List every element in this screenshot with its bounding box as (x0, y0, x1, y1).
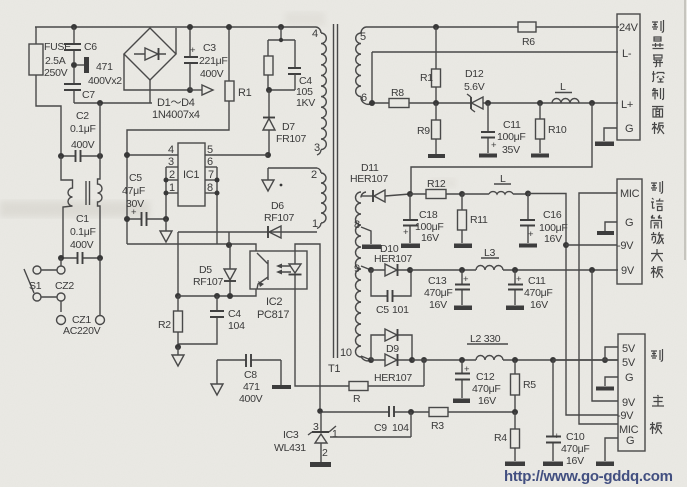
opto-coupler IC2 PC817 (250, 251, 307, 321)
transformer T1 aux winding pin2-pin1 (311, 168, 326, 230)
svg-text:HER107: HER107 (350, 173, 388, 185)
node R2 bottom (175, 344, 181, 350)
svg-text:RF107: RF107 (264, 212, 294, 224)
wire snubber top split (268, 27, 295, 67)
node 主 (main board label char 2) (652, 395, 664, 406)
wire 5V bracket to first pin (553, 347, 618, 360)
svg-text:1: 1 (332, 428, 338, 440)
svg-text:R2: R2 (158, 319, 171, 331)
value label D1~D4 1N4007x4 (152, 97, 200, 121)
node C16 top (525, 191, 531, 197)
node snubber top (278, 24, 284, 30)
svg-text:5: 5 (207, 144, 213, 156)
svg-text:+: + (464, 364, 470, 375)
svg-text:221μF: 221μF (199, 55, 227, 67)
pin 7 of IC1 (205, 169, 217, 181)
pin 3 of IC1 (166, 156, 178, 168)
svg-text:C1: C1 (76, 213, 89, 225)
svg-text:C11: C11 (528, 275, 546, 287)
svg-text:R5: R5 (523, 379, 536, 391)
capacitor C5 47uF 30V (122, 172, 166, 226)
ground bar below C10 (543, 462, 563, 467)
pin 5 of IC1 (205, 144, 268, 156)
wire fuse bottom to CM choke left (36, 75, 61, 156)
resistor R2 (158, 296, 183, 347)
transformer T1 core (328, 24, 340, 375)
node R5 top (512, 357, 518, 363)
svg-text:R10: R10 (548, 124, 567, 136)
svg-text:471: 471 (96, 61, 113, 73)
resistor R9 (417, 103, 441, 154)
connector main board (617, 334, 645, 451)
node snubber bottom / D7 cathode (266, 87, 272, 93)
node C6/C7 midpoint (71, 62, 77, 68)
transformer T1 secondary bottom winding pins 8,9,10 (340, 192, 371, 361)
svg-text:HER107: HER107 (374, 253, 412, 265)
ground hot-gnd arrow C8 left (211, 360, 223, 395)
wire IC1 left pins bus (165, 167, 167, 219)
svg-text:R11: R11 (470, 214, 488, 226)
svg-text:2.5A: 2.5A (45, 55, 66, 67)
svg-text:G: G (625, 123, 633, 135)
ground bar below R4 (505, 462, 525, 467)
svg-text:CZ2: CZ2 (55, 280, 74, 292)
node R12/R11 (459, 191, 465, 197)
node L+ feedback tap (589, 100, 595, 106)
svg-text:400V: 400V (200, 68, 224, 80)
svg-text:R4: R4 (494, 432, 507, 444)
inductor L2 330 (467, 333, 508, 360)
node pin2 (164, 178, 169, 183)
connector CZ2 (41, 258, 74, 312)
svg-text:IC1: IC1 (183, 169, 199, 181)
node C5 left (124, 216, 130, 222)
pin 1 of IC1 (166, 182, 178, 194)
capacitor C10 470uF 16V (546, 360, 589, 467)
bridge rectifier D1~D4 1N4007x4 (124, 28, 176, 103)
svg-text:2: 2 (311, 169, 317, 181)
ground bar below C11-35V (479, 154, 497, 158)
capacitor C6 (64, 27, 97, 62)
svg-text:FUSE: FUSE (44, 41, 71, 53)
node D7 anode on pin5 wire (265, 152, 271, 158)
node 屏 (display label char 3) (653, 55, 663, 67)
capacitor C3 221uF 400V (184, 27, 227, 90)
svg-text:C9: C9 (374, 422, 387, 434)
svg-text:16V: 16V (530, 299, 548, 311)
node 话 (mic amp label char 2) (651, 198, 664, 211)
svg-text:G: G (625, 372, 633, 384)
node R3/R4/R5 junction (512, 409, 518, 415)
resistor R11 (458, 194, 489, 243)
node R1 top (226, 24, 232, 30)
transistor IC3 WL431 shunt regulator (274, 412, 338, 462)
resistor R1 (primary startup) (127, 27, 252, 155)
node C1 right (97, 255, 103, 261)
svg-text:6: 6 (207, 156, 213, 168)
svg-text:C4: C4 (228, 308, 241, 320)
inductor L3 (476, 247, 503, 270)
ground bar below R9 (428, 154, 445, 158)
svg-text:-9V: -9V (617, 240, 634, 252)
node pin8 (215, 191, 220, 196)
svg-text:MIC: MIC (620, 188, 640, 200)
svg-text:C5: C5 (376, 304, 389, 316)
node C9/R3 REF junction (408, 409, 414, 415)
svg-text:S1: S1 (29, 280, 42, 292)
wire snubber bottom join (268, 75, 295, 90)
svg-text:D6: D6 (271, 200, 284, 212)
svg-text:C8: C8 (244, 369, 257, 381)
svg-text:9V: 9V (622, 397, 636, 409)
paper smudge mid right (430, 178, 456, 188)
svg-text:24V: 24V (619, 22, 639, 34)
resistor R6 (518, 22, 536, 48)
node R8/R1/R9 junction (433, 100, 439, 106)
svg-text:R6: R6 (522, 36, 535, 48)
svg-text:C3: C3 (203, 42, 216, 54)
node C2 left (58, 153, 64, 159)
capacitor C7 (64, 68, 95, 103)
node IC3 cathode (317, 408, 323, 414)
node top rail junction at fuse/C6 (71, 24, 77, 30)
node C13 top (459, 267, 465, 273)
capacitor C4 105 1KV (288, 68, 315, 109)
svg-text:7: 7 (208, 169, 214, 181)
transformer T1 primary winding pin4-pin3 (312, 27, 326, 155)
diode D9 HER107 (parallel pair) (371, 329, 412, 384)
svg-text:C13: C13 (428, 275, 447, 287)
node pin9 (368, 267, 374, 273)
diode D6 RF107 (178, 200, 317, 244)
svg-text:470μF: 470μF (472, 383, 500, 395)
ground G2 of main connector (596, 438, 618, 466)
resistor R3 (429, 408, 448, 433)
svg-text:0.1μF: 0.1μF (70, 226, 96, 238)
svg-text:3: 3 (168, 156, 174, 168)
node D5 bottom (227, 293, 233, 299)
svg-text:C7: C7 (82, 89, 95, 101)
wire pin6 output line (372, 102, 618, 104)
svg-text:1: 1 (312, 218, 318, 230)
pin 4 of IC1 (127, 144, 178, 156)
capacitor C8 471 400V (217, 354, 281, 405)
fuse FUSE 2.5A 250V (29, 41, 71, 79)
pin 8 of IC1 (205, 182, 217, 194)
wire -9V feed down to main board (528, 194, 618, 416)
node pin6 (369, 100, 375, 106)
svg-text:+: + (528, 229, 534, 240)
svg-text:5V: 5V (622, 357, 636, 369)
wire top AC/DC+ rail (primary) (35, 27, 316, 44)
svg-text:D5: D5 (199, 264, 212, 276)
node 控 (display label char 4) (652, 71, 664, 82)
resistor R1 (secondary) (420, 27, 441, 103)
svg-text:5.6V: 5.6V (464, 81, 485, 93)
svg-text:C18: C18 (419, 209, 438, 221)
node D10 output (407, 267, 413, 273)
node R1sec top (433, 24, 439, 30)
svg-text:R9: R9 (417, 125, 430, 137)
svg-text:250V: 250V (44, 67, 68, 79)
wire bridge negative to C3 minus (124, 54, 190, 90)
transformer core CM choke (86, 181, 90, 205)
capacitor C16 100uF 16V (520, 193, 567, 245)
svg-text:470μF: 470μF (424, 287, 452, 299)
svg-text:G: G (626, 435, 634, 447)
svg-text:400V: 400V (71, 139, 95, 151)
connector display panel (617, 14, 640, 140)
transformer T1 secondary top winding pin5-pin6 (356, 27, 372, 104)
paper smudge left band (0, 201, 150, 217)
wire 5V rail (412, 359, 618, 361)
svg-text:+: + (516, 274, 522, 285)
ground bar below C13 (454, 306, 472, 311)
svg-text:C11: C11 (503, 119, 521, 131)
capacitor C9 104 (374, 406, 409, 434)
inductor L (-9V rail) (462, 173, 528, 194)
diode D11 HER107 (350, 162, 410, 202)
svg-text:16V: 16V (429, 299, 447, 311)
svg-text:R1: R1 (238, 87, 252, 99)
node D9 output (409, 357, 415, 363)
node D11 output (407, 191, 413, 197)
svg-text:C6: C6 (84, 41, 97, 53)
wire IC2 LED cathode to R row (295, 289, 349, 386)
resistor R12 (410, 178, 462, 199)
svg-text:C10: C10 (566, 431, 585, 443)
node 到 (mic amp label char 1) (651, 181, 663, 193)
node snubber split (279, 38, 283, 42)
svg-text:D9: D9 (386, 343, 399, 355)
wire 9V rail (410, 269, 618, 271)
svg-text:L-: L- (622, 48, 632, 60)
diode D10 HER107 (371, 243, 412, 276)
svg-text:16V: 16V (421, 232, 439, 244)
capacitor C2 0.1uF 400V (61, 110, 100, 162)
wire Vcc left rail (126, 155, 128, 244)
ground bar below IC3 (310, 462, 331, 467)
resistor R4 (494, 412, 520, 461)
wire IC2 LED anode to feedback line (295, 244, 320, 411)
capacitor C13 470uF 16V (424, 270, 470, 311)
node 板 (display label char 7) (652, 122, 664, 134)
wire IC3 REF line (330, 412, 411, 437)
svg-text:8: 8 (207, 182, 213, 194)
svg-text:C16: C16 (543, 209, 562, 221)
node D5 top (226, 242, 232, 248)
node 大 (mic amp label char 5) (651, 249, 663, 262)
svg-text:R1: R1 (420, 72, 433, 84)
node 到 (display label char 1) (652, 20, 664, 32)
svg-text:1: 1 (169, 182, 175, 194)
svg-text:2: 2 (169, 169, 175, 181)
svg-text:4: 4 (312, 28, 318, 40)
connector CZ1 AC220V (57, 258, 105, 337)
wire feedback 24V to -9V rail (411, 103, 592, 194)
svg-text:R3: R3 (431, 420, 444, 432)
ground hot-gnd arrow (right pointing) at C3 minus (190, 85, 213, 95)
svg-text:471: 471 (243, 381, 260, 393)
node C5 right (163, 216, 169, 222)
node 5V bracket (602, 357, 608, 363)
node pin4 rail (124, 152, 130, 158)
svg-text:16V: 16V (566, 455, 584, 467)
node 板 (mic amp label char 6) (651, 266, 663, 278)
capacitor C12 470uF 16V (455, 360, 500, 407)
ground hot-gnd arrow below R2 (172, 347, 184, 366)
svg-text:100μF: 100μF (497, 131, 525, 143)
svg-text:AC220V: AC220V (63, 325, 101, 337)
wire IC1 right pins bus to bottom rail (216, 167, 218, 244)
node C1 left (58, 255, 64, 261)
ground hot-gnd arrow below IC1 pins (160, 219, 172, 242)
svg-text:400V: 400V (70, 239, 94, 251)
svg-text:3: 3 (314, 142, 320, 154)
svg-text:C12: C12 (476, 371, 495, 383)
svg-text:5V: 5V (622, 343, 636, 355)
svg-text:9V: 9V (621, 265, 635, 277)
svg-text:3: 3 (313, 421, 319, 433)
wire choke right feed (99, 103, 101, 156)
node 板 (main board label char 3) (650, 422, 662, 434)
svg-text:D12: D12 (465, 68, 484, 80)
wire pin8 to ground (361, 227, 381, 249)
node 筒 (mic amp label char 3) (651, 215, 662, 229)
value label 471 400Vx2 with tick bar (76, 57, 122, 87)
svg-text:G: G (625, 217, 633, 229)
svg-text:T1: T1 (328, 363, 340, 375)
svg-text:35V: 35V (502, 144, 520, 156)
svg-text:30V: 30V (126, 198, 144, 210)
wire aux feed down to opto row (177, 232, 179, 296)
capacitor C4 104 (178, 296, 245, 344)
diode D12 5.6V zener (464, 68, 485, 112)
node R10 top (537, 100, 543, 106)
svg-text:IC3: IC3 (283, 429, 299, 441)
resistor R10 (536, 103, 567, 153)
node C11-16V top (512, 267, 518, 273)
svg-text:R8: R8 (391, 87, 404, 99)
svg-text:8: 8 (354, 219, 360, 231)
wire 9V down to main board (592, 270, 618, 401)
svg-text:470μF: 470μF (524, 287, 552, 299)
inductor CM choke left winding (61, 156, 73, 258)
svg-text:104: 104 (392, 422, 409, 434)
inductor L (24V rail) (552, 81, 579, 103)
svg-text:+: + (463, 274, 469, 285)
svg-text:0.1μF: 0.1μF (70, 123, 96, 135)
node pin1 (164, 191, 169, 196)
svg-text:1N4007x4: 1N4007x4 (152, 109, 200, 121)
resistor R (opto feed) (349, 360, 424, 405)
node -9V branch (563, 242, 569, 248)
node 显 (display label char 2) (652, 37, 664, 49)
svg-text:FR107: FR107 (276, 133, 306, 145)
svg-text:400Vx2: 400Vx2 (88, 75, 122, 87)
paper smudge top mid (285, 12, 325, 26)
svg-text:16V: 16V (544, 233, 562, 245)
wire Vcc bottom rail (127, 244, 256, 251)
svg-text:101: 101 (392, 304, 409, 316)
svg-text:L: L (560, 81, 566, 93)
ground bar below C12 (453, 399, 470, 404)
wire pin10 tap (361, 356, 371, 360)
resistor snubber (unlabeled) (264, 56, 273, 75)
wire -9V rail from winding to D11 (361, 195, 373, 197)
node 9V feed to main board (589, 267, 595, 273)
node AC/choke tap (97, 100, 103, 106)
connector mic amp board (617, 179, 642, 284)
svg-text:HER107: HER107 (374, 372, 412, 384)
svg-text:2: 2 (322, 447, 328, 459)
svg-text:+: + (190, 45, 196, 56)
svg-text:C2: C2 (76, 110, 89, 122)
ground bar below R10 (531, 154, 549, 158)
svg-text:47μF: 47μF (122, 185, 145, 197)
svg-text:16V: 16V (478, 395, 496, 407)
capacitor C11 100uF 35V (481, 103, 525, 156)
svg-text:http://www.go-gddq.com: http://www.go-gddq.com (504, 468, 673, 485)
svg-text:5: 5 (360, 31, 366, 43)
ground bar below C18 (401, 244, 420, 249)
node C2 right (97, 153, 103, 159)
wire AC line to bridge bottom vertex (74, 102, 152, 104)
svg-text:6: 6 (361, 92, 367, 104)
svg-text:D1～D4: D1～D4 (157, 97, 195, 109)
ground bar below C16 (519, 244, 537, 248)
svg-text:IC2: IC2 (266, 296, 282, 308)
wire feedback row y412 (320, 411, 515, 413)
svg-text:104: 104 (228, 320, 245, 332)
pin 6 of IC1 (205, 156, 217, 168)
node C3 negative (187, 87, 193, 93)
svg-text:+: + (554, 431, 560, 442)
capacitor C1 0.1uF 400V (61, 213, 100, 264)
wire -9V to mic amp connector (566, 244, 617, 246)
node 制 (display label char 5) (652, 88, 664, 100)
capacitor C18 100uF 16V (403, 194, 443, 244)
node 到 (main board label char 1) (651, 349, 663, 361)
svg-text:400V: 400V (239, 393, 263, 405)
svg-text:WL431: WL431 (274, 442, 306, 454)
svg-text:L3: L3 (484, 247, 496, 259)
wire MIC line down to main board (579, 193, 618, 424)
pin 2 of IC1 (166, 169, 178, 181)
resistor R8 (389, 87, 409, 108)
svg-text:D7: D7 (282, 121, 295, 133)
capacitor C5 101 (bypass) (371, 270, 411, 316)
node C3 top (187, 24, 193, 30)
svg-text:C5: C5 (129, 172, 142, 184)
node pin10 (368, 357, 374, 363)
node C12 top (459, 357, 465, 363)
resistor R5 (511, 360, 537, 411)
svg-text:+: + (403, 227, 409, 238)
diode D5 RF107 (193, 245, 236, 296)
node C10 top (550, 357, 556, 363)
node 面 (display label char 6) (652, 107, 664, 118)
svg-text:R: R (353, 393, 361, 405)
capacitor C11 470uF 16V (508, 270, 552, 311)
wire 24V rail secondary (366, 26, 619, 28)
diode D7 FR107 (263, 90, 306, 155)
ground G of display connector (595, 128, 617, 146)
svg-text:L2 330: L2 330 (470, 333, 501, 345)
node 放 (mic amp label char 4) (651, 232, 664, 244)
svg-text:470μF: 470μF (561, 443, 589, 455)
svg-text:L+: L+ (621, 99, 633, 111)
